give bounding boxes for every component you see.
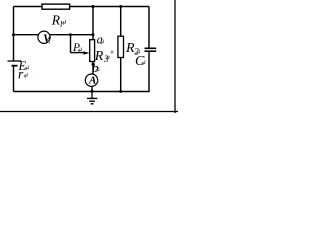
svg-text:r: r	[18, 67, 24, 82]
svg-text:b: b	[92, 60, 99, 75]
svg-text:V: V	[43, 31, 52, 45]
svg-text:1: 1	[59, 20, 63, 29]
svg-text:a: a	[97, 32, 103, 46]
svg-text:A: A	[88, 75, 96, 87]
svg-text:C: C	[135, 54, 145, 69]
svg-text:P: P	[72, 42, 80, 54]
